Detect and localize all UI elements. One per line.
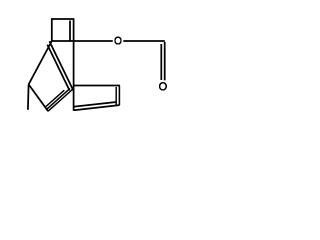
- wire ring bottom inner double line: [74, 102, 116, 107]
- wire carbonyl double bond inner line: [160, 44, 162, 80]
- wire main horizontal bond to ester oxygen: [52, 40, 113, 42]
- wire ring bottom outer edge: [74, 105, 120, 110]
- node O ester oxygen: [115, 37, 121, 44]
- wire ester bond to carbonyl carbon: [123, 40, 165, 42]
- wire ring right outer edge: [118, 86, 120, 106]
- wire carbonyl double bond main line: [164, 42, 166, 81]
- wire NW double bond main line: [49, 41, 73, 90]
- wire ring right inner double line: [115, 87, 117, 105]
- node O carbonyl oxygen: [160, 83, 167, 90]
- wire cyclobutene double bond inner line: [69, 21, 71, 41]
- wire NW double bond inner line: [47, 45, 69, 91]
- wire SW bond line L1: [45, 90, 64, 107]
- wire methyl bond from D: [27, 84, 30, 109]
- wire ring top edge: [74, 85, 120, 87]
- wire bond D-E: [29, 84, 48, 111]
- wire bond A-D: [29, 41, 52, 84]
- wire shared vertical edge: [73, 18, 75, 111]
- wire cyclobutene top edge: [52, 18, 74, 20]
- wire cyclobutene left edge: [51, 18, 53, 41]
- wire SW bond line L3: [48, 89, 73, 112]
- wire SW bond line L2: [46, 88, 70, 109]
